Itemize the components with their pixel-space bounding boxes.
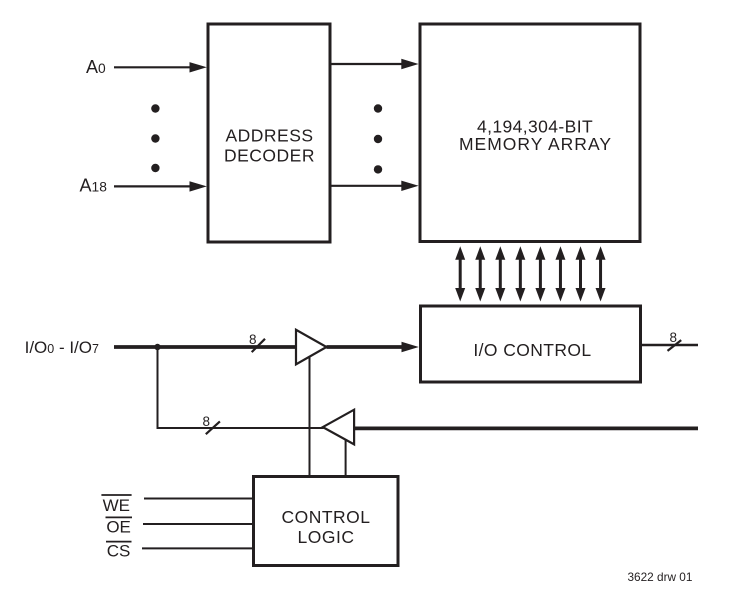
svg-text:8: 8 xyxy=(203,414,211,429)
wire decoder to memory array upper arrow xyxy=(332,59,419,69)
wire enable line from output buffer down to control logic xyxy=(345,440,347,477)
output buffer triangle (points left) xyxy=(323,410,354,445)
wire I/O data line into input buffer xyxy=(114,345,297,349)
label A0 xyxy=(86,57,106,77)
block 4,194,304-BIT MEMORY ARRAY xyxy=(420,24,640,242)
block ADDRESS DECODER xyxy=(208,24,330,242)
wire enable line from input buffer down to control logic xyxy=(309,357,311,477)
wire input buffer to I/O control with arrow xyxy=(327,342,419,352)
svg-text:ADDRESS: ADDRESS xyxy=(225,126,313,146)
wire A18 input arrow xyxy=(114,181,207,191)
svg-text:8: 8 xyxy=(670,330,678,345)
label WE with overline xyxy=(101,495,131,515)
wire WE input xyxy=(144,498,254,500)
bus width slash 8 on output line xyxy=(668,330,682,351)
svg-text:LOGIC: LOGIC xyxy=(298,527,355,547)
svg-text:CS: CS xyxy=(107,541,131,560)
svg-text:I/O0 - I/O7: I/O0 - I/O7 xyxy=(25,338,99,357)
svg-text:CONTROL: CONTROL xyxy=(281,507,370,527)
wire I/O control output to right xyxy=(641,344,698,346)
junction node on I/O line xyxy=(154,344,160,350)
wire vertical from junction down xyxy=(157,347,159,427)
wire decoder to memory array lower arrow xyxy=(332,181,419,191)
wire OE input xyxy=(143,523,254,525)
bus width slash 8 on input line xyxy=(249,332,265,352)
svg-text:MEMORY ARRAY: MEMORY ARRAY xyxy=(459,134,612,154)
bus width slash 8 on feedback line xyxy=(203,414,220,434)
wire lower feedback line to output buffer xyxy=(157,427,324,429)
svg-text:I/O CONTROL: I/O CONTROL xyxy=(473,340,591,360)
address ellipsis dots left column xyxy=(151,104,159,172)
bus memory array to I/O control: 8 double-headed arrows xyxy=(455,246,605,301)
svg-text:8: 8 xyxy=(249,332,257,347)
label A18 xyxy=(80,175,108,195)
svg-text:WE: WE xyxy=(103,496,130,515)
label OE with overline xyxy=(106,517,133,536)
label CS with overline xyxy=(106,541,132,560)
svg-text:DECODER: DECODER xyxy=(224,146,315,166)
block CONTROL LOGIC xyxy=(254,477,399,566)
svg-text:3622 drw 01: 3622 drw 01 xyxy=(628,570,693,584)
input buffer triangle xyxy=(296,330,327,365)
decoded-lines ellipsis dots middle column xyxy=(374,104,382,173)
block I/O CONTROL xyxy=(421,306,641,382)
wire CS input xyxy=(142,547,254,549)
svg-text:OE: OE xyxy=(106,518,131,537)
label I/O0 - I/O7 xyxy=(25,338,99,357)
wire A0 input arrow xyxy=(114,62,207,72)
wire from right into output buffer xyxy=(354,426,698,430)
